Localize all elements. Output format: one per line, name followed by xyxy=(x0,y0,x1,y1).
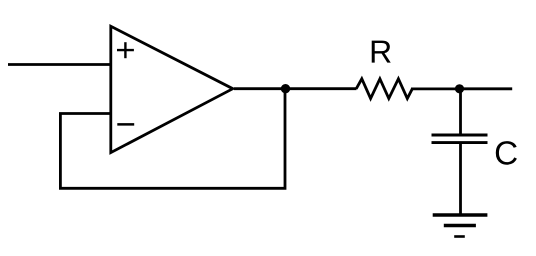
wire (node down to capacitor) xyxy=(459,89,462,135)
wire (feedback: output node down, across bottom, up to inverting input) xyxy=(60,89,285,189)
op-amp minus input symbol xyxy=(117,123,134,126)
node (output junction) xyxy=(281,84,290,93)
node (RC junction) xyxy=(455,84,464,93)
resistor R xyxy=(356,79,412,99)
label R xyxy=(372,41,391,63)
wire (resistor to RC node) xyxy=(411,88,460,91)
wire (op-amp output to resistor) xyxy=(234,87,357,90)
capacitor C xyxy=(432,135,488,143)
ground xyxy=(433,215,488,237)
label C xyxy=(496,141,517,165)
op-amp plus input symbol xyxy=(117,42,134,58)
wire (RC node to output, right) xyxy=(460,87,513,90)
wire (capacitor to ground) xyxy=(459,143,462,215)
op-amp U1 xyxy=(111,26,233,152)
wire (input to non-inverting input) xyxy=(8,63,111,66)
